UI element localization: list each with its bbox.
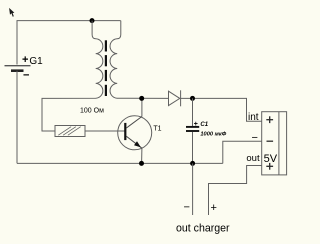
- svg-text:1000 мкФ: 1000 мкФ: [200, 132, 226, 138]
- node emitter rail junction: [139, 161, 144, 166]
- wire emitter down: [141, 148, 143, 163]
- transistor T1: [118, 116, 152, 150]
- svg-text:out: out: [246, 153, 260, 164]
- svg-text:T1: T1: [153, 126, 161, 133]
- svg-text:G1: G1: [29, 56, 43, 67]
- battery G1: [5, 54, 44, 82]
- diode: [169, 90, 181, 106]
- node junction top: [90, 18, 95, 23]
- svg-text:−: −: [252, 132, 258, 144]
- wire collector up: [141, 98, 143, 116]
- svg-text:+: +: [194, 121, 198, 128]
- wire out plus to charger: [209, 166, 262, 216]
- mouse cursor: [9, 8, 14, 17]
- svg-text:−: −: [184, 202, 190, 214]
- output block 5V: [262, 112, 287, 175]
- svg-text:100 Ом: 100 Ом: [80, 108, 104, 115]
- capacitor C1: [186, 98, 199, 163]
- wire charger minus terminal: [192, 163, 194, 215]
- ground rail: [17, 162, 223, 164]
- resistor 100 Ом: [55, 126, 85, 137]
- wire diode to right corner: [181, 98, 262, 121]
- svg-text:+: +: [22, 54, 28, 66]
- svg-text:int: int: [248, 112, 259, 123]
- transformer core: [105, 40, 107, 96]
- svg-text:5V: 5V: [264, 153, 278, 165]
- node capacitor rail junction: [190, 161, 195, 166]
- wire resistor to base: [85, 130, 125, 132]
- svg-text:C1: C1: [200, 122, 208, 128]
- node collector junction: [139, 96, 144, 101]
- svg-text:−: −: [23, 70, 29, 82]
- svg-text:out charger: out charger: [176, 223, 230, 235]
- wire minus from block to rail: [223, 141, 262, 163]
- node capacitor top junction: [190, 96, 195, 101]
- svg-text:+: +: [211, 202, 217, 214]
- transformer primary winding (left): [42, 21, 103, 131]
- wire battery bottom to ground rail: [16, 71, 18, 164]
- wire battery top to transformer: [17, 21, 121, 65]
- transformer secondary winding (right): [110, 21, 168, 99]
